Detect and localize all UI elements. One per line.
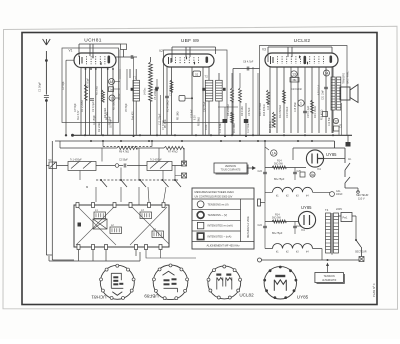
svg-text:1A: 1A xyxy=(272,151,277,155)
svg-text:C8 4,7pF: C8 4,7pF xyxy=(243,61,254,64)
svg-text:C24: C24 xyxy=(258,170,263,173)
capacitor C11 xyxy=(245,103,247,135)
svg-text:C12 5nF: C12 5nF xyxy=(192,109,194,118)
wire bus 3 with resistors xyxy=(60,148,184,164)
switch arm xyxy=(163,180,169,187)
box c1 xyxy=(334,126,340,131)
svg-text:UCH81: UCH81 xyxy=(84,38,101,44)
capacitor C5 xyxy=(155,87,159,89)
svg-text:R11 2MΩ: R11 2MΩ xyxy=(234,123,236,133)
loudspeaker HP xyxy=(340,87,350,100)
fuse box Pw1 xyxy=(341,213,352,222)
svg-text:HAUT-PARL.: HAUT-PARL. xyxy=(347,70,350,84)
svg-text:Osc 6,3V: Osc 6,3V xyxy=(78,110,80,120)
resistor R8 xyxy=(231,88,234,102)
svg-text:1: 1 xyxy=(300,101,302,105)
svg-text:CAV 25nF: CAV 25nF xyxy=(204,101,207,112)
wire over V3 xyxy=(268,47,332,62)
main schematic frame xyxy=(22,33,377,305)
rectifier UY85 top xyxy=(306,150,323,167)
svg-text:INTENSITES en (mA): INTENSITES en (mA) xyxy=(208,224,233,228)
svg-text:T2: T2 xyxy=(205,75,209,79)
switch arm xyxy=(101,180,107,187)
wire box bottom xyxy=(49,250,140,262)
svg-text:INTENSITES ~ (mA): INTENSITES ~ (mA) xyxy=(208,234,232,238)
capacitor C10 xyxy=(218,107,238,135)
oscillator coil spring xyxy=(149,62,153,101)
antenna xyxy=(43,39,51,95)
capacitor C15 xyxy=(303,111,307,113)
svg-text:V1: V1 xyxy=(69,49,73,53)
tension alternatif box xyxy=(315,273,344,283)
svg-text:R5 470kΩ: R5 470kΩ xyxy=(166,100,170,112)
svg-text:C7 200pF: C7 200pF xyxy=(171,85,173,96)
stage box V1 xyxy=(62,48,119,123)
wire V1 pins xyxy=(80,68,82,136)
svg-text:110 V: 110 V xyxy=(358,197,365,201)
switch Int 1 xyxy=(345,148,350,188)
svg-text:C11n: C11n xyxy=(206,124,208,130)
tube UBF 89 envelope xyxy=(163,54,214,67)
svg-text:C4 150pF: C4 150pF xyxy=(94,114,96,125)
svg-text:TRANSFO: TRANSFO xyxy=(343,73,346,84)
svg-text:R9 56kΩ: R9 56kΩ xyxy=(199,117,201,126)
switch arm xyxy=(175,180,181,187)
junction dots bus xyxy=(84,134,86,136)
switch arm xyxy=(121,180,127,187)
legend row INTENSITES en (mA) xyxy=(197,222,203,228)
terminal pin xyxy=(92,203,95,208)
legend row TENSIONS en (V) xyxy=(197,201,204,208)
switch arm xyxy=(140,180,146,187)
svg-text:TENSION: TENSION xyxy=(324,275,335,278)
svg-text:C6 50nF: C6 50nF xyxy=(110,116,112,125)
svg-text:C10 50nF: C10 50nF xyxy=(220,122,222,133)
terminal pin xyxy=(76,203,79,208)
svg-text:C1 50pF: C1 50pF xyxy=(38,82,42,92)
svg-text:L5 osc: L5 osc xyxy=(119,92,121,100)
resistor R14b xyxy=(265,221,298,223)
svg-text:UCL82: UCL82 xyxy=(294,38,311,44)
legend row TENSIONS ~ (V) xyxy=(197,212,204,219)
coil L1 xyxy=(94,212,106,219)
box 52 xyxy=(193,71,201,77)
terminal pin xyxy=(162,203,165,208)
svg-text:6,3V 0,1A: 6,3V 0,1A xyxy=(318,84,321,95)
test point 13 xyxy=(291,71,297,77)
terminal pin xyxy=(148,203,151,208)
svg-text:13: 13 xyxy=(110,96,114,100)
svg-text:T4: T4 xyxy=(325,208,329,212)
resistor R9 xyxy=(239,88,242,102)
coil L2 xyxy=(110,227,122,234)
svg-text:R8 1MΩ: R8 1MΩ xyxy=(178,111,180,120)
svg-text:50Ω 5W: 50Ω 5W xyxy=(274,162,283,165)
capacitor C4 xyxy=(131,55,133,59)
pin dots V1 xyxy=(85,68,87,70)
wire left feeder xyxy=(52,141,74,260)
svg-text:L4 Osc: L4 Osc xyxy=(145,87,147,95)
svg-text:SECTEUR: SECTEUR xyxy=(355,251,367,254)
svg-text:14: 14 xyxy=(325,71,329,75)
svg-text:TENSIONS ~ (V): TENSIONS ~ (V) xyxy=(208,213,228,217)
X terminal 1 xyxy=(182,161,187,166)
feeds from bus3 xyxy=(102,148,159,162)
band switch dashed line xyxy=(96,179,178,181)
svg-text:C3 50pF: C3 50pF xyxy=(75,103,77,112)
svg-text:R4 1kΩ: R4 1kΩ xyxy=(107,112,109,120)
svg-text:13: 13 xyxy=(292,72,296,76)
resistor R1 xyxy=(85,84,88,100)
svg-text:TOUS COURANTS: TOUS COURANTS xyxy=(221,169,241,172)
choke row 2 xyxy=(265,249,322,261)
socket UY85 xyxy=(264,267,296,299)
svg-text:C19 5nF: C19 5nF xyxy=(329,117,331,126)
svg-text:ALTERNATIF: ALTERNATIF xyxy=(322,279,337,282)
stage box V2 xyxy=(164,50,228,123)
tube UCH81 envelope xyxy=(74,53,116,68)
svg-text:UCL82: UCL82 xyxy=(239,293,254,298)
wire over V2 xyxy=(172,47,216,62)
svg-text:R5 470k: R5 470k xyxy=(165,119,167,128)
svg-text:MESURES EFFECTUEES AVEC: MESURES EFFECTUEES AVEC xyxy=(195,190,235,194)
wire bus 2 xyxy=(55,141,335,148)
test point 14 xyxy=(324,70,330,76)
svg-text:MESURES A VIDE: MESURES A VIDE xyxy=(246,216,250,238)
svg-text:V2: V2 xyxy=(159,49,163,53)
test point 1 xyxy=(298,100,304,106)
svg-text:6,3V: 6,3V xyxy=(195,115,197,120)
svg-text:V4: V4 xyxy=(317,167,321,171)
svg-text:R14 470kΩ: R14 470kΩ xyxy=(264,104,266,116)
svg-text:PLAN Nº 4: PLAN Nº 4 xyxy=(372,283,376,297)
svg-text:R1 2,2MΩ: R1 2,2MΩ xyxy=(80,100,84,112)
switch Int 2 xyxy=(356,240,362,257)
svg-text:Tr.2 4/20pF: Tr.2 4/20pF xyxy=(150,159,162,162)
stage box V3 xyxy=(260,46,348,136)
svg-text:12: 12 xyxy=(334,119,338,123)
svg-text:C2 0,1µF: C2 0,1µF xyxy=(91,101,95,112)
arrow xyxy=(247,167,255,170)
wire antenna down xyxy=(46,99,52,256)
wire V1 left pin xyxy=(66,60,74,135)
svg-text:CAL: CAL xyxy=(336,190,341,193)
svg-text:UY85: UY85 xyxy=(301,205,312,210)
svg-text:VERSION: VERSION xyxy=(225,165,236,168)
wire col xyxy=(253,67,258,135)
socket UCL82 xyxy=(208,266,241,299)
capacitor C25 xyxy=(294,168,296,181)
junction circle xyxy=(115,164,119,168)
wire V2 pins xyxy=(166,67,168,135)
slug xyxy=(78,223,82,227)
box value xyxy=(290,78,299,83)
svg-text:C5 80pF: C5 80pF xyxy=(126,103,128,112)
svg-text:C24: C24 xyxy=(258,224,263,227)
svg-text:R3 27kΩ: R3 27kΩ xyxy=(97,86,99,95)
svg-text:UN CONTROLEUR DE 5000 Ω/V: UN CONTROLEUR DE 5000 Ω/V xyxy=(195,195,233,199)
dashed AVC segment xyxy=(103,146,152,148)
svg-text:R15 1MΩ: R15 1MΩ xyxy=(273,118,275,128)
svg-text:R16 470Ω: R16 470Ω xyxy=(322,109,324,120)
crossed wires xyxy=(76,207,169,245)
socket UCH81 xyxy=(100,265,134,299)
tuning coil box xyxy=(74,205,169,247)
capacitor C21 xyxy=(324,87,328,89)
wire rect section xyxy=(265,141,306,201)
svg-text:TENSIONS en (V): TENSIONS en (V) xyxy=(208,202,229,206)
wire box feeds xyxy=(96,187,166,205)
svg-text:220V: 220V xyxy=(336,207,342,211)
svg-text:V4: V4 xyxy=(301,228,305,232)
svg-text:C16 5nF: C16 5nF xyxy=(268,101,270,110)
X terminal mains xyxy=(359,257,364,262)
resistor R3 xyxy=(102,90,105,102)
version box xyxy=(214,163,247,173)
svg-text:50Ω 5W: 50Ω 5W xyxy=(272,216,281,219)
capacitor C8 xyxy=(233,69,260,136)
svg-text:R2 22kΩ: R2 22kΩ xyxy=(97,122,101,132)
svg-text:100nF: 100nF xyxy=(336,194,343,196)
wire HT bus xyxy=(72,134,353,136)
svg-text:UCH81: UCH81 xyxy=(91,294,107,299)
resistor R12 xyxy=(283,90,286,103)
wire bottom mains xyxy=(258,258,262,262)
test point 1A xyxy=(271,150,277,156)
svg-text:C3 200pF: C3 200pF xyxy=(88,77,90,88)
capacitor CAL xyxy=(330,192,335,197)
svg-text:C18 25nF: C18 25nF xyxy=(295,101,297,112)
svg-text:C15 0,1µF: C15 0,1µF xyxy=(306,105,310,118)
arrow up xyxy=(327,266,329,273)
resistor R6 xyxy=(117,146,137,149)
legend row INTENSITES ~ (mA) xyxy=(197,233,203,239)
svg-text:Int.: Int. xyxy=(348,157,352,161)
terminal pin xyxy=(113,203,116,208)
coil L3 xyxy=(140,212,152,219)
terminal pin xyxy=(129,203,132,208)
socket UBF89 xyxy=(153,265,188,300)
terminal xyxy=(258,199,261,206)
resistor R14v xyxy=(267,90,270,104)
svg-text:C2 50pF: C2 50pF xyxy=(63,81,65,90)
capacitor C1 xyxy=(44,96,49,98)
svg-text:UY85: UY85 xyxy=(297,295,309,300)
variable capacitor CV xyxy=(93,219,107,229)
svg-text:C25: C25 xyxy=(297,225,302,228)
box j xyxy=(323,112,328,117)
svg-text:M: M xyxy=(86,185,88,189)
resistor R17 xyxy=(273,112,276,127)
svg-text:UBF 89: UBF 89 xyxy=(181,38,199,44)
wire trimmer row xyxy=(46,165,181,167)
test point 13 xyxy=(109,95,115,101)
svg-text:C9 5nF: C9 5nF xyxy=(247,107,251,116)
svg-text:C14 50nF: C14 50nF xyxy=(285,106,289,118)
V3 middle electrode xyxy=(304,56,307,64)
capacitor C24b xyxy=(263,226,267,228)
svg-text:R8 220kΩ: R8 220kΩ xyxy=(226,104,230,116)
box 5 xyxy=(179,96,185,102)
svg-text:C21 10nF: C21 10nF xyxy=(323,89,325,100)
wire osc feed xyxy=(138,148,140,180)
svg-text:R12 820kΩ: R12 820kΩ xyxy=(278,105,282,118)
svg-text:R9 1MΩ: R9 1MΩ xyxy=(240,106,244,116)
svg-text:Pw1: Pw1 xyxy=(343,217,348,220)
svg-text:R6 4,7kΩ: R6 4,7kΩ xyxy=(119,151,129,154)
svg-text:4c: 4c xyxy=(311,173,315,177)
capacitor C2m xyxy=(124,164,126,168)
resistor R14 xyxy=(272,166,286,169)
coil L4 xyxy=(152,231,164,238)
tube UCL82 envelope xyxy=(265,53,338,67)
svg-text:R2 22kΩ: R2 22kΩ xyxy=(114,101,116,110)
choke row 1 xyxy=(265,191,330,193)
capacitor C7 xyxy=(165,96,169,98)
legend box xyxy=(192,188,254,249)
svg-text:C13 10nF: C13 10nF xyxy=(291,88,302,91)
extra wire stubs xyxy=(120,57,339,135)
svg-text:Tr.1 4/20pF: Tr.1 4/20pF xyxy=(70,159,82,162)
svg-text:V3: V3 xyxy=(262,48,266,52)
wire V3 pins xyxy=(269,67,271,133)
svg-text:80+75µF: 80+75µF xyxy=(274,177,285,181)
resistor R7 xyxy=(164,146,184,149)
svg-text:C25: C25 xyxy=(297,170,302,173)
capacitor C2 xyxy=(90,99,94,101)
svg-text:4A: 4A xyxy=(109,80,114,84)
resistor R11 xyxy=(231,112,234,123)
wire V1 to T1 xyxy=(116,57,137,78)
X terminal 2 xyxy=(182,173,187,178)
svg-text:C11 50nF: C11 50nF xyxy=(248,122,250,133)
svg-text:R10 470kΩ: R10 470kΩ xyxy=(258,103,262,116)
test point 4c xyxy=(310,172,315,177)
test point 1a box xyxy=(109,87,114,92)
wire over V1 xyxy=(79,44,124,57)
box B xyxy=(300,172,305,177)
resistor R5 xyxy=(170,80,173,92)
svg-text:80+75µF: 80+75µF xyxy=(272,231,283,235)
svg-text:C2 50pF: C2 50pF xyxy=(119,160,128,162)
svg-text:R7 47kΩ: R7 47kΩ xyxy=(168,151,178,154)
box 12 xyxy=(121,44,127,50)
test point 4A xyxy=(109,79,115,85)
capacitor C24 xyxy=(263,172,267,174)
resistor R13 xyxy=(311,100,314,113)
wire switch feeds xyxy=(80,166,175,181)
svg-text:C5 220pF: C5 220pF xyxy=(153,88,157,100)
output transformer T4 xyxy=(331,77,335,110)
capacitor C25b xyxy=(294,222,296,235)
test point 12 xyxy=(333,118,338,123)
svg-text:ALIGNEMENT MF 455 KHz: ALIGNEMENT MF 455 KHz xyxy=(206,243,240,247)
svg-text:UBF89: UBF89 xyxy=(144,293,159,298)
svg-text:UY85: UY85 xyxy=(326,152,337,157)
